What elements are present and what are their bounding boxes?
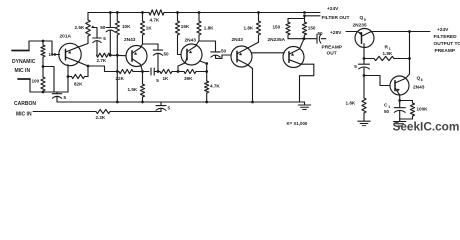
svg-text:82K: 82K bbox=[74, 82, 83, 87]
svg-text:2N43: 2N43 bbox=[185, 38, 197, 44]
svg-text:MIC IN: MIC IN bbox=[15, 68, 31, 74]
svg-text:K= X1,000: K= X1,000 bbox=[287, 121, 308, 126]
svg-text:1.5K: 1.5K bbox=[128, 87, 138, 92]
svg-text:2.5K: 2.5K bbox=[75, 25, 85, 30]
svg-text:6: 6 bbox=[421, 78, 423, 82]
svg-text:OUTPUT TO: OUTPUT TO bbox=[434, 41, 460, 47]
svg-text:2N43: 2N43 bbox=[124, 37, 136, 43]
svg-text:2N43: 2N43 bbox=[413, 85, 425, 91]
svg-text:5: 5 bbox=[156, 78, 159, 83]
svg-text:2N235A: 2N235A bbox=[268, 37, 286, 43]
svg-text:5: 5 bbox=[354, 64, 357, 69]
svg-text:100: 100 bbox=[32, 79, 40, 84]
svg-text:FILTER OUT: FILTER OUT bbox=[322, 15, 350, 21]
svg-text:50: 50 bbox=[221, 49, 227, 54]
svg-text:100K: 100K bbox=[417, 107, 429, 112]
svg-text:22K: 22K bbox=[116, 76, 125, 81]
svg-text:DYNAMIC: DYNAMIC bbox=[12, 59, 36, 65]
svg-text:1.8K: 1.8K bbox=[346, 101, 356, 106]
svg-text:39K: 39K bbox=[184, 76, 193, 81]
svg-text:1K: 1K bbox=[163, 76, 170, 81]
svg-text:SeekIC.com: SeekIC.com bbox=[393, 120, 460, 134]
svg-text:1.8K: 1.8K bbox=[244, 26, 254, 31]
svg-text:5: 5 bbox=[364, 18, 366, 22]
svg-text:4.7K: 4.7K bbox=[150, 17, 160, 22]
svg-text:CARBON: CARBON bbox=[14, 101, 36, 107]
svg-text:2.7K: 2.7K bbox=[97, 58, 107, 63]
svg-text:PREAMP: PREAMP bbox=[322, 45, 343, 51]
svg-text:+24V: +24V bbox=[437, 27, 449, 33]
svg-text:50: 50 bbox=[100, 25, 106, 30]
svg-text:2.2K: 2.2K bbox=[96, 115, 106, 120]
svg-text:5: 5 bbox=[64, 95, 67, 100]
svg-text:15K: 15K bbox=[181, 24, 190, 29]
svg-text:1K: 1K bbox=[146, 26, 153, 31]
svg-text:2N235: 2N235 bbox=[353, 22, 367, 28]
svg-text:150: 150 bbox=[273, 25, 281, 30]
svg-text:50: 50 bbox=[164, 52, 170, 57]
svg-text:2N43: 2N43 bbox=[232, 37, 244, 43]
svg-text:201A: 201A bbox=[60, 34, 72, 40]
svg-text:PREAMP: PREAMP bbox=[435, 48, 456, 54]
svg-text:FILTERED: FILTERED bbox=[434, 34, 458, 40]
svg-text:+28V: +28V bbox=[330, 30, 342, 36]
svg-text:1.8K: 1.8K bbox=[383, 51, 393, 56]
svg-text:+24V: +24V bbox=[327, 6, 339, 12]
svg-text:150: 150 bbox=[308, 26, 316, 31]
svg-text:MIC IN: MIC IN bbox=[16, 111, 32, 117]
svg-text:1.8K: 1.8K bbox=[204, 26, 214, 31]
svg-text:5: 5 bbox=[103, 36, 106, 41]
svg-text:5: 5 bbox=[168, 106, 171, 111]
svg-text:4.7K: 4.7K bbox=[210, 84, 220, 89]
svg-text:50: 50 bbox=[318, 31, 324, 36]
svg-text:100: 100 bbox=[49, 52, 57, 57]
svg-text:10K: 10K bbox=[122, 24, 131, 29]
svg-text:OUT: OUT bbox=[327, 51, 337, 57]
svg-text:50: 50 bbox=[384, 109, 390, 114]
